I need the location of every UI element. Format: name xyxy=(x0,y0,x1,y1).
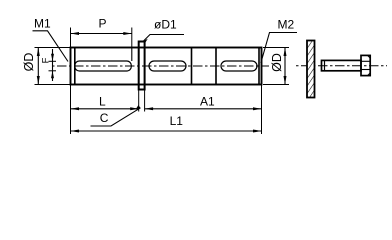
leader ØD1 xyxy=(144,35,185,42)
divider line 1 xyxy=(191,48,193,85)
dimension ØD right: extension lines xyxy=(263,47,289,49)
bolt head facet lines xyxy=(361,60,370,62)
dimension ØD left line xyxy=(37,48,39,85)
extension line collar left below xyxy=(138,90,140,112)
thread runout line xyxy=(131,48,133,62)
shaft body outline xyxy=(71,48,262,85)
extension line left end below xyxy=(70,85,72,135)
dimension P extension right xyxy=(131,28,133,48)
thread capsule 3 xyxy=(221,61,257,71)
thread capsule 1 (left section) xyxy=(75,61,132,71)
dimension A1 line xyxy=(145,108,262,110)
dimension L line xyxy=(71,108,139,110)
extension line collar right below xyxy=(144,90,146,112)
dimension ØD left: extension lines xyxy=(35,47,71,49)
svg-text:ØD: ØD xyxy=(22,53,36,72)
leader C xyxy=(91,108,141,126)
dimension L1 line xyxy=(71,130,262,132)
centerline main view xyxy=(52,65,269,67)
svg-text:P: P xyxy=(99,17,107,31)
dimension F: extension lines xyxy=(49,60,57,62)
bolt shank xyxy=(322,60,362,70)
side view centerline xyxy=(296,65,387,67)
svg-text:L: L xyxy=(99,95,106,109)
bolt chamfer xyxy=(324,60,326,70)
svg-text:C: C xyxy=(100,111,109,125)
right chamfer line xyxy=(258,48,260,85)
svg-text:ØD: ØD xyxy=(270,53,284,72)
left chamfer line xyxy=(74,48,76,85)
svg-text:L1: L1 xyxy=(170,114,184,128)
extension line right end below xyxy=(261,85,263,135)
leader M1 xyxy=(33,31,69,62)
svg-text:M1: M1 xyxy=(34,17,51,31)
leader M2 xyxy=(261,33,297,64)
svg-text:F: F xyxy=(41,57,52,63)
svg-text:M2: M2 xyxy=(278,18,295,32)
svg-text:øD1: øD1 xyxy=(154,18,177,32)
dimension F line xyxy=(52,49,54,81)
thread capsule 2 xyxy=(149,61,186,71)
divider line 2 xyxy=(215,48,217,85)
bolt head chamfer corners xyxy=(368,55,371,58)
bolt head xyxy=(361,55,370,75)
svg-text:A1: A1 xyxy=(200,95,215,109)
dimension ØD right line xyxy=(284,48,286,85)
collar xyxy=(139,42,145,90)
dimension P line xyxy=(71,33,132,35)
dimension P extension left (above shaft) xyxy=(70,28,72,48)
